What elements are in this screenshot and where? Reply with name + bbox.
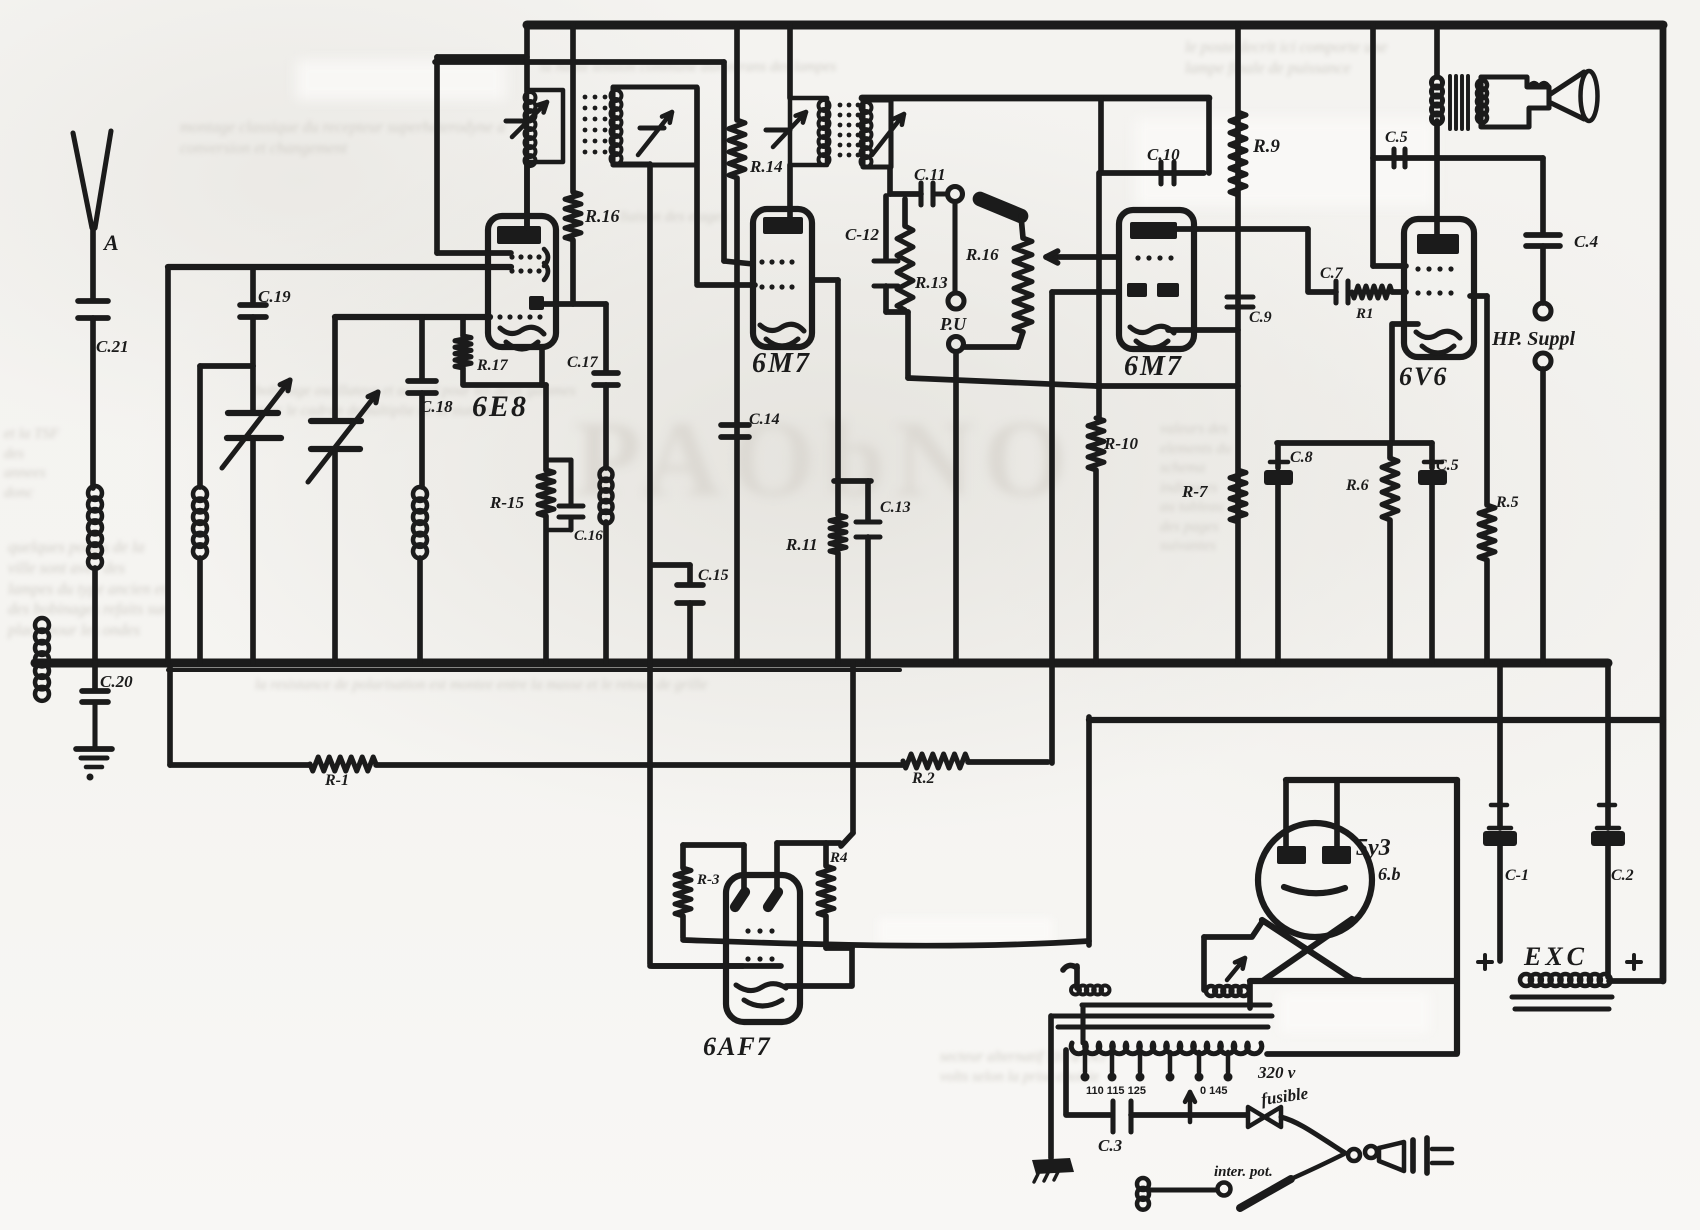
svg-text:EXC: EXC [1523, 942, 1588, 971]
svg-text:C.9: C.9 [1249, 309, 1272, 326]
svg-text:R.6: R.6 [1345, 477, 1369, 494]
svg-text:R-3: R-3 [696, 872, 720, 888]
svg-text:110 115 125: 110 115 125 [1086, 1085, 1146, 1097]
svg-text:C.5: C.5 [1385, 129, 1408, 146]
svg-text:6.b: 6.b [1378, 864, 1401, 884]
svg-text:6E8: 6E8 [472, 390, 528, 423]
svg-text:C-1: C-1 [1505, 867, 1529, 884]
svg-text:6M7: 6M7 [1124, 351, 1183, 382]
svg-text:0 145: 0 145 [1200, 1085, 1228, 1097]
svg-text:R.17: R.17 [476, 357, 509, 374]
svg-text:C.10: C.10 [1147, 145, 1180, 164]
svg-text:6M7: 6M7 [752, 348, 811, 379]
svg-text:R.16: R.16 [965, 245, 999, 264]
svg-text:320 v: 320 v [1257, 1063, 1296, 1082]
svg-text:C.3: C.3 [1098, 1136, 1123, 1155]
svg-text:C.8: C.8 [1290, 449, 1313, 466]
svg-text:5y3: 5y3 [1356, 835, 1391, 861]
svg-text:R.5: R.5 [1495, 494, 1519, 511]
svg-text:R-1: R-1 [324, 772, 349, 789]
svg-text:R.16: R.16 [584, 206, 620, 226]
svg-text:C.4: C.4 [1574, 232, 1598, 251]
svg-text:C.5: C.5 [1436, 457, 1459, 474]
svg-text:C.19: C.19 [258, 287, 291, 306]
svg-text:C.14: C.14 [749, 411, 780, 428]
svg-text:R.11: R.11 [785, 535, 818, 554]
svg-text:C.2: C.2 [1611, 867, 1634, 884]
svg-text:C.17: C.17 [567, 354, 599, 371]
svg-text:R-10: R-10 [1103, 434, 1139, 453]
svg-text:C-12: C-12 [845, 225, 880, 244]
svg-text:R.9: R.9 [1252, 136, 1280, 157]
svg-text:C.13: C.13 [880, 499, 911, 516]
svg-text:P.U: P.U [939, 314, 967, 334]
svg-text:R.13: R.13 [914, 273, 948, 292]
svg-text:R.2: R.2 [911, 770, 935, 787]
svg-text:C.15: C.15 [698, 567, 729, 584]
svg-text:6V6: 6V6 [1399, 362, 1448, 391]
svg-text:fusible: fusible [1260, 1084, 1310, 1109]
svg-text:R4: R4 [829, 850, 848, 866]
svg-text:R-15: R-15 [489, 493, 525, 512]
svg-text:inter. pot.: inter. pot. [1214, 1164, 1273, 1180]
svg-text:HP. Suppl: HP. Suppl [1491, 328, 1575, 350]
svg-text:C.11: C.11 [914, 165, 946, 184]
svg-text:C.18: C.18 [420, 397, 453, 416]
svg-text:C.20: C.20 [100, 672, 133, 691]
svg-text:C.21: C.21 [96, 337, 129, 356]
svg-text:C.7: C.7 [1320, 265, 1344, 282]
svg-text:R1: R1 [1355, 306, 1374, 322]
svg-text:C.16: C.16 [574, 528, 603, 544]
svg-text:6AF7: 6AF7 [703, 1032, 772, 1061]
svg-text:R.14: R.14 [749, 157, 783, 176]
svg-text:R-7: R-7 [1181, 482, 1209, 501]
svg-text:A: A [102, 230, 119, 255]
